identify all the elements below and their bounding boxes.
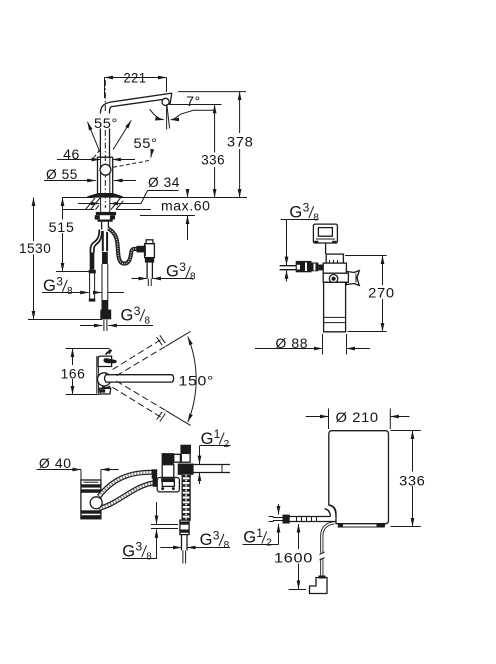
- ext line tank top right: [391, 430, 421, 432]
- svg-text:max.60: max.60: [161, 198, 211, 214]
- spout dashed up position: [113, 339, 163, 370]
- g38 no4 label: [281, 201, 320, 224]
- center hose nut: [100, 310, 111, 320]
- g38 no2 label: [166, 260, 196, 283]
- svg-text:336: 336: [399, 472, 425, 488]
- swivel circle top view: [98, 373, 111, 386]
- hose knob fitting: [90, 497, 102, 509]
- knockout 378 336: [225, 133, 255, 149]
- top nut dark: [180, 445, 191, 454]
- svg-text:G: G: [122, 542, 135, 560]
- ext line 150 bottom: [166, 410, 191, 425]
- pipe edge ticks: [269, 517, 274, 522]
- svg-text:3: 3: [56, 274, 63, 288]
- hose center dark segments: [102, 252, 108, 264]
- dim 221 line: [105, 78, 167, 99]
- max60 down arrow: [187, 190, 189, 197]
- dim 1530 line: [28, 198, 102, 320]
- check valve top cap: [146, 240, 153, 244]
- wall bracket: [346, 271, 359, 286]
- knockout 270: [367, 285, 396, 299]
- svg-text:Ø 210: Ø 210: [336, 409, 379, 425]
- ext line canister bottom: [348, 331, 387, 333]
- svg-text:3: 3: [179, 260, 186, 274]
- knockout 1530: [18, 241, 54, 255]
- knockout 515: [48, 220, 77, 234]
- boiler tank: [329, 431, 389, 524]
- left hose tip: [89, 299, 96, 302]
- dim 378 line: [239, 92, 241, 198]
- svg-text:336: 336: [201, 151, 225, 167]
- max60 ref line: [140, 215, 195, 217]
- outlet pipe right: [194, 465, 230, 473]
- svg-text:270: 270: [368, 284, 395, 300]
- knockout 166: [58, 365, 87, 379]
- svg-text:8: 8: [313, 212, 319, 223]
- deck bottom line: [62, 209, 151, 211]
- lever tip dashes: [105, 349, 112, 355]
- ext line cap top: [345, 255, 387, 257]
- hose B lower: [99, 483, 157, 509]
- svg-text:2: 2: [224, 439, 230, 450]
- hose Y split left: [90, 230, 99, 253]
- g12 no2 label: [243, 526, 279, 549]
- arc 150: [188, 337, 196, 423]
- knockout 1600: [273, 549, 315, 564]
- lever leader right 55: [113, 120, 131, 149]
- valve body dark: [178, 464, 194, 475]
- svg-text:1530: 1530: [19, 240, 52, 256]
- 1600 end ext line: [289, 589, 306, 591]
- left hose dark segment: [90, 252, 95, 269]
- cartridge cylinder: [81, 480, 101, 519]
- control box wire: [325, 243, 327, 254]
- svg-text:3: 3: [134, 304, 141, 318]
- svg-text:G: G: [166, 263, 179, 281]
- cartridge housing top view: [98, 356, 112, 366]
- svg-text:8: 8: [190, 272, 196, 283]
- canister band: [324, 317, 346, 322]
- check valve body: [145, 244, 155, 258]
- wall plate: [157, 478, 179, 492]
- clamp ring: [323, 273, 348, 282]
- escutcheon cone: [87, 193, 123, 198]
- dim diam55: [44, 180, 136, 182]
- base plate edge top view: [97, 356, 99, 394]
- svg-text:3: 3: [213, 529, 220, 543]
- svg-text:55°: 55°: [94, 115, 118, 131]
- base bottom top view: [99, 388, 110, 394]
- svg-text:G: G: [243, 529, 256, 547]
- check valve tube: [147, 263, 152, 279]
- svg-text:3: 3: [303, 201, 310, 215]
- ext line base bottom: [66, 394, 100, 396]
- hose center walls: [103, 231, 107, 251]
- spout dashed down position: [113, 387, 163, 418]
- centerline faucet: [104, 80, 106, 208]
- spout top view: [105, 375, 174, 382]
- control box: [313, 224, 337, 243]
- dim diam88: [255, 348, 323, 350]
- filter head: [323, 263, 346, 273]
- lock knob: [329, 275, 337, 283]
- dim 336 line: [214, 105, 216, 198]
- svg-text:G: G: [200, 531, 213, 549]
- lever ball circle: [100, 164, 111, 175]
- 7deg leader: [181, 110, 215, 114]
- hose center tube: [102, 264, 108, 310]
- check valve tail: [148, 279, 151, 286]
- filter head cap: [326, 254, 343, 263]
- svg-text:2: 2: [266, 538, 272, 549]
- inlet elbow: [325, 505, 337, 516]
- inlet pipe: [290, 517, 337, 522]
- tank base line: [338, 524, 385, 527]
- lever leader left 55: [88, 122, 100, 152]
- lever paddle top view: [104, 358, 117, 363]
- neck lines: [100, 112, 109, 157]
- g38 no5 arrows: [156, 502, 158, 524]
- g38 no3 label: [121, 304, 151, 327]
- g38 no6 label: [200, 529, 230, 552]
- g12 no1 label: [200, 427, 230, 450]
- svg-text:55°: 55°: [134, 135, 158, 151]
- hose A upper: [99, 472, 153, 496]
- svg-text:8: 8: [145, 316, 151, 327]
- svg-text:8: 8: [224, 540, 230, 551]
- check valve marker lines: [151, 525, 178, 529]
- g12 no1 arrows: [199, 446, 201, 465]
- svg-text:7°: 7°: [186, 93, 201, 109]
- svg-text:Ø 40: Ø 40: [39, 455, 72, 471]
- g38 no5 label: [122, 540, 152, 563]
- inlet pipe: [280, 266, 323, 270]
- left hose tube: [90, 273, 95, 298]
- g12 no2 arrows: [278, 504, 280, 515]
- pipe lower tube: [182, 535, 188, 551]
- deck hatch left: [86, 198, 101, 210]
- diam40 ext lines: [81, 470, 101, 481]
- filter canister: [324, 282, 346, 332]
- knockout 55a: [93, 114, 120, 129]
- ext line tank bottom right: [391, 526, 421, 528]
- faucet body: [98, 157, 113, 193]
- deck top line: [62, 197, 247, 199]
- elbow dark: [162, 453, 174, 464]
- dim diam40: [37, 469, 81, 471]
- svg-text:G: G: [289, 203, 302, 221]
- svg-text:515: 515: [49, 219, 75, 235]
- knockout 336b: [398, 472, 427, 487]
- spout outline: [100, 93, 171, 113]
- svg-text:166: 166: [61, 366, 86, 382]
- dim 336b line: [412, 431, 414, 527]
- svg-text:1: 1: [256, 526, 263, 540]
- dim diam210: [306, 416, 329, 418]
- dim 166 line: [72, 349, 74, 395]
- joint bottom arc: [102, 385, 111, 388]
- dim 515 line: [56, 198, 94, 272]
- hose B end nut: [153, 478, 158, 487]
- left hose nut: [89, 270, 96, 274]
- svg-text:1600: 1600: [274, 549, 313, 565]
- svg-text:221: 221: [124, 69, 147, 85]
- vertical pipe threaded: [182, 474, 190, 520]
- svg-text:1: 1: [214, 427, 221, 441]
- g38 no4 arrows: [286, 220, 288, 266]
- dim diam34 arrows: [78, 191, 179, 204]
- g38 no1 label: [42, 274, 124, 297]
- svg-text:3: 3: [136, 540, 143, 554]
- svg-text:Ø 55: Ø 55: [46, 166, 78, 182]
- cord break marks: [320, 552, 325, 560]
- washer below deck: [96, 212, 116, 215]
- dashed lever open left: [94, 149, 101, 158]
- dim 1600 line: [298, 524, 300, 589]
- 7deg swing lines: [166, 104, 168, 129]
- center hose tail: [104, 320, 107, 331]
- inlet nut: [283, 515, 290, 524]
- diam210 ext lines: [329, 409, 391, 430]
- svg-text:G: G: [121, 307, 134, 325]
- extension line aerator level: [169, 104, 222, 106]
- pipe fitting: [180, 520, 189, 535]
- svg-text:8: 8: [146, 551, 152, 562]
- inlet stub: [273, 518, 283, 521]
- dashed tip cap up: [157, 335, 166, 345]
- svg-text:46: 46: [63, 146, 80, 162]
- ext line lever top: [66, 348, 110, 350]
- ext line 150 top: [166, 331, 191, 346]
- 55b leader: [151, 150, 153, 158]
- hose corrugated loop: [108, 229, 140, 264]
- svg-text:Ø 88: Ø 88: [275, 335, 308, 351]
- power cord: [322, 523, 334, 579]
- deck hatch right: [111, 198, 123, 210]
- aerator circle: [162, 98, 169, 105]
- max60 up arrow: [187, 216, 189, 241]
- solenoid coil box: [162, 465, 174, 478]
- 7deg arc left: [150, 109, 164, 120]
- extension line spout top: [178, 91, 246, 93]
- solenoid valve on pipe: [296, 261, 312, 272]
- dim 46: [57, 159, 135, 161]
- g38 no2 dim: [132, 278, 148, 280]
- svg-text:Ø 34: Ø 34: [148, 174, 180, 190]
- check valve white cyl: [181, 453, 190, 462]
- 7deg arc right: [171, 114, 181, 120]
- shank below nut: [102, 222, 109, 230]
- body inner lines: [101, 157, 110, 213]
- svg-text:378: 378: [227, 133, 254, 149]
- pipe thin tail: [183, 550, 186, 563]
- dashed tip cap down: [157, 412, 166, 422]
- g38 no6 dim: [160, 547, 181, 549]
- g38 no3 dim: [80, 325, 102, 327]
- dim 270 line: [382, 256, 384, 332]
- plug: [310, 578, 328, 594]
- svg-text:8: 8: [67, 286, 73, 297]
- hose A end nut: [152, 469, 158, 478]
- diam88 ext ticks: [323, 334, 347, 355]
- dashed lever open right: [112, 161, 149, 168]
- svg-text:150°: 150°: [179, 373, 215, 389]
- mounting nut: [95, 215, 115, 222]
